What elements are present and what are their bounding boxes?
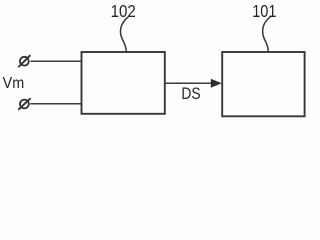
svg-text:Vm: Vm xyxy=(3,75,25,92)
svg-text:101: 101 xyxy=(252,1,276,21)
svg-text:102: 102 xyxy=(111,1,136,21)
svg-text:DS: DS xyxy=(181,84,200,103)
